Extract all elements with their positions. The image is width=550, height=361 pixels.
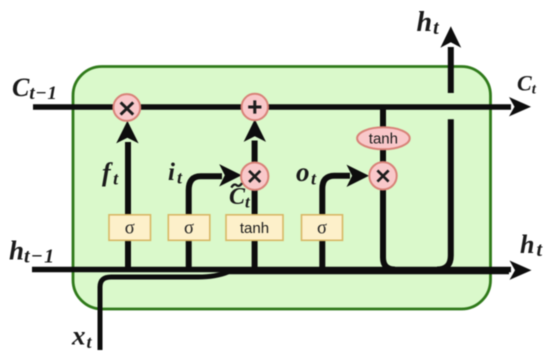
tanh gate box (candidate) xyxy=(226,215,283,241)
sigma gate box 1 (forget) xyxy=(109,215,151,241)
LSTM cell body (rounded green rectangle) xyxy=(73,67,491,310)
svg-text:ht: ht xyxy=(520,230,543,261)
svg-text:σ: σ xyxy=(317,219,327,239)
arrowhead: candidate path into add circle xyxy=(244,119,266,142)
wire: output-gate vertical with elbow (o path) xyxy=(322,176,350,268)
arrowhead: h_t output (right) xyxy=(510,261,532,280)
multiply node (input x candidate) xyxy=(241,163,268,190)
wire: hidden-state line h (bottom horizontal) xyxy=(32,267,511,273)
svg-text:σ: σ xyxy=(184,219,194,239)
operator glyph x in output multiply xyxy=(377,170,388,181)
wire: cell-state line C (top horizontal) xyxy=(33,104,511,110)
operator glyph x in candidate multiply xyxy=(249,171,260,182)
add node on C line xyxy=(242,94,268,120)
sigma gate box 3 (output) xyxy=(302,215,343,241)
wire: x_t input, elbow joining bottom line xyxy=(100,272,228,350)
multiply node (output gate) xyxy=(369,162,396,189)
operator glyph x in forget multiply xyxy=(121,102,134,114)
arrowhead: i path into multiply circle xyxy=(219,164,242,186)
svg-text:Ct: Ct xyxy=(517,71,537,98)
arrowhead: f path into multiply circle xyxy=(116,121,138,144)
wire: h_t branch upper segment (gap over C line) xyxy=(448,47,454,93)
wire: input-gate vertical with elbow (i path) xyxy=(189,176,222,268)
arrowhead: h_t output (top) xyxy=(440,26,461,48)
svg-text:tanh: tanh xyxy=(369,131,398,148)
svg-text:σ: σ xyxy=(125,219,135,239)
svg-text:xt: xt xyxy=(71,321,93,353)
svg-text:ht−1: ht−1 xyxy=(9,236,55,268)
svg-text:Ct−1: Ct−1 xyxy=(12,73,57,104)
multiply node on C line (forget gate) xyxy=(113,94,140,121)
tanh ellipse on output branch xyxy=(357,127,410,149)
svg-text:ht: ht xyxy=(417,7,441,39)
wire: tanh branch from C line down to bottom line xyxy=(383,107,395,270)
arrowhead: o path into multiply circle xyxy=(347,165,370,187)
wire: forget-gate vertical (f path) xyxy=(125,142,131,268)
sigma gate box 2 (input) xyxy=(168,215,210,241)
wire: h_t branch rising from bottom line (lower segment) xyxy=(437,119,451,269)
operator glyph + in add xyxy=(248,100,261,113)
svg-text:tanh: tanh xyxy=(240,220,269,237)
wire: candidate vertical (C-tilde path) xyxy=(252,141,258,269)
arrowhead: C_t output (right) xyxy=(509,97,531,116)
